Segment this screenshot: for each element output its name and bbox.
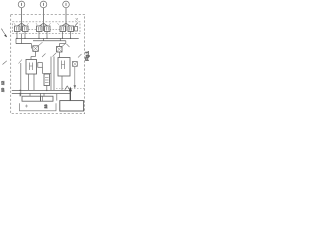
arrowhead up: [69, 87, 72, 92]
wire X1 down: [46, 86, 48, 91]
svg-text:10: 10: [1, 88, 5, 92]
fuse element F1b: [23, 26, 29, 32]
fuse element F3a: [60, 26, 66, 32]
blade tick Q2 outer-left: [36, 23, 37, 25]
F1b internal bars: [24, 27, 26, 31]
junction dot b: [19, 93, 20, 94]
wire into K1 top: [30, 57, 32, 60]
wire right hor y43.5: [60, 43, 66, 45]
linkage arrowhead down: [74, 85, 77, 88]
wire K1 bottom b: [33, 74, 35, 90]
cable pair line b: [53, 57, 55, 91]
wire bus to sensor S1: [31, 44, 33, 49]
wire from P3: [65, 8, 67, 31]
wire S1 down: [35, 51, 37, 56]
cable pair line a: [50, 57, 52, 91]
leader to S2 label: [62, 43, 66, 46]
blade tick Q1 outer-left: [14, 23, 15, 25]
lower bus line 2: [12, 92, 71, 94]
switch blade Q1 left: [17, 23, 22, 26]
F1a internal bars: [16, 27, 18, 31]
K2 aux crossed box: [73, 62, 78, 67]
bus bar B: [16, 43, 32, 45]
switchgear dashed enclosure: [13, 22, 81, 34]
terminal circle P3: [63, 1, 70, 8]
K2 aux cross: [73, 62, 77, 66]
wire bus drop x65.8: [65, 41, 67, 44]
leader label 5: [19, 60, 23, 64]
blade tick Q3 outer-left: [58, 23, 59, 25]
leader to S1 label: [39, 42, 43, 45]
switch blade Q3 left: [62, 23, 67, 26]
K2 internal contacts: [62, 61, 65, 70]
K1 aux box: [38, 63, 43, 68]
switch blade Q2 right: [44, 23, 49, 26]
leader label 7: [67, 44, 70, 47]
wire bus drop x43: [43, 38, 45, 40]
terminal circle P2: [40, 1, 47, 8]
leader tick label 5 margin: [3, 61, 7, 65]
switch blade Q1 right: [22, 23, 27, 26]
label m below strip: [25, 105, 28, 108]
load box M: [60, 101, 84, 111]
blade tick Q2 outer-right: [49, 23, 50, 25]
enclosure dashed border: [11, 14, 85, 113]
F2a internal bars: [38, 27, 40, 31]
wire K1 left down: [20, 63, 22, 96]
lead F2b down: [46, 32, 48, 39]
mechanical linkage dashed line: [17, 28, 76, 30]
wire into S2: [59, 44, 61, 47]
relay K2 box: [58, 58, 70, 77]
junction dot c: [46, 90, 47, 91]
wire stub x56.8: [56, 94, 58, 101]
S2 cross: [57, 47, 62, 52]
blade tick Q1 outer-right: [27, 23, 28, 25]
wire S1 to relay K1: [31, 56, 36, 58]
junction dot a: [19, 90, 20, 91]
lead F2a down: [38, 32, 40, 39]
current transformer S1 (crossed box): [33, 46, 39, 52]
lead F3b down: [70, 32, 72, 39]
wire S2 down: [59, 52, 61, 58]
auxiliary contact F3c: [75, 27, 78, 32]
X1 internal marks: [45, 78, 49, 83]
dashed wire right of arrow: [56, 88, 84, 90]
lead F1a down: [16, 32, 18, 39]
blade F3c: [75, 23, 78, 26]
wire from P1: [21, 8, 23, 31]
terminal strip box right: [41, 96, 54, 101]
wire K1 bottom a: [28, 74, 30, 90]
wire bus to strip x40: [40, 93, 42, 96]
aux linkage rod with down arrow: [74, 67, 76, 87]
marking above F3c: [76, 18, 79, 21]
junction dots on bus A: [16, 38, 71, 39]
wire group1 down: [21, 34, 23, 44]
fuse element F1a: [15, 26, 21, 32]
arrow to load M: [69, 88, 71, 100]
K1 internal contacts: [30, 63, 33, 71]
wire K1 aux down: [42, 67, 44, 73]
switch blade Q3 right: [66, 23, 71, 26]
X1 top tick: [43, 73, 52, 75]
leader to arrow a: [65, 86, 68, 90]
wire bus to strip x30: [29, 93, 31, 96]
lead F3a down: [62, 32, 64, 39]
F3a internal bars: [62, 27, 64, 31]
F3b internal bars: [70, 27, 72, 31]
svg-text:12: 12: [1, 81, 5, 85]
wire K2 bottom: [61, 76, 63, 90]
lead F1b down: [24, 32, 26, 39]
leader arrow label 2 tail: [1, 29, 2, 31]
leader cable top: [42, 54, 46, 58]
fuse element F2a: [37, 26, 43, 32]
current transformer S2 (crossed box): [57, 47, 63, 53]
bus bar C: [33, 40, 66, 42]
lower bus line 1: [12, 89, 69, 91]
leader arrow label 2: [2, 30, 7, 38]
S1 cross: [33, 46, 38, 51]
fuse element F3b: [68, 26, 74, 32]
label inside P3: [65, 3, 67, 6]
wire bus to strip x44: [43, 93, 45, 96]
F2b internal bars: [46, 27, 48, 31]
leader to arrow b: [67, 86, 69, 89]
terminal circle P1: [18, 1, 25, 8]
leader cable top2: [53, 53, 57, 57]
label inside P1: [21, 3, 23, 6]
svg-text:Fig.1: Fig.1: [84, 51, 89, 61]
wire busA-busB left end: [15, 38, 17, 43]
switch blade Q2 left: [39, 23, 44, 26]
leader arrowhead: [4, 34, 7, 37]
relay K1 box: [26, 60, 37, 75]
lower terminal compartment box: [20, 103, 57, 111]
terminal strip box left: [22, 96, 41, 101]
bus bar A: [16, 37, 79, 39]
svg-text:18: 18: [44, 105, 48, 109]
strip divider: [41, 96, 43, 101]
fuse element F2b: [45, 26, 51, 32]
wire bus drop x60.3: [59, 38, 61, 40]
wire bus to terminal strip left: [19, 93, 21, 96]
wire from P2: [43, 8, 45, 31]
label inside P2: [43, 3, 45, 6]
leader label 9: [78, 54, 82, 58]
terminal block X1: [44, 74, 50, 86]
